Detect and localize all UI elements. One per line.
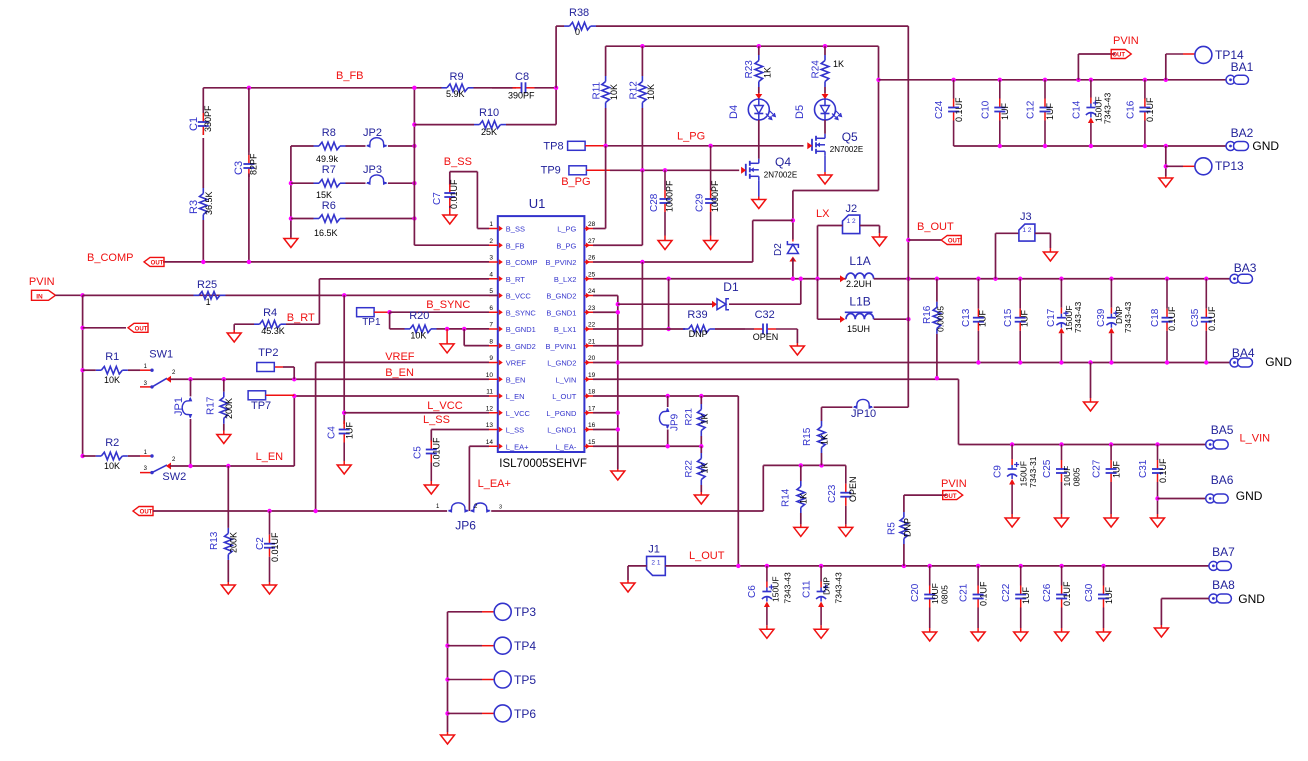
junction R2 row [80,454,84,458]
junction R21 top [699,394,703,398]
junction R7 left [289,181,293,185]
svg-text:10K: 10K [104,461,120,471]
svg-text:1 2: 1 2 [1022,227,1031,234]
wire D4-Q4 [758,120,760,159]
svg-text:1 2: 1 2 [847,218,856,225]
svg-text:45.3K: 45.3K [261,326,285,336]
resistor R23 [758,46,760,55]
svg-text:TP7: TP7 [251,400,271,412]
svg-text:C32: C32 [755,309,775,321]
svg-text:JP3: JP3 [363,164,382,176]
ground C6 [766,625,768,629]
junction L_VCC [342,411,346,415]
connector BA1 [1226,75,1235,84]
svg-text:B_EN: B_EN [385,367,414,379]
svg-text:TP13: TP13 [1215,159,1244,173]
op-amp U1 ISL70005SEHVF body [498,216,585,452]
svg-text:C22: C22 [1001,583,1012,602]
svg-text:C10: C10 [980,100,991,119]
svg-text:JP1: JP1 [173,397,185,416]
svg-text:TP2: TP2 [258,347,278,359]
jumper JP10 [854,399,872,406]
wire J2 pin2 [860,225,880,227]
svg-text:PVIN: PVIN [29,276,55,288]
junction C9 [1010,442,1014,446]
capacitor C28 [664,170,666,190]
svg-text:L_GND1: L_GND1 [547,426,576,435]
U1 pin 28 L_PG [584,228,593,230]
wire TP3-6 bus [447,612,449,732]
svg-text:TP1: TP1 [362,317,381,328]
svg-text:28: 28 [588,221,596,228]
wire B_SYNC row [390,311,489,313]
wire TP8 lead [585,145,605,147]
junction gnd rail [998,144,1002,148]
junction C13 bot [976,360,980,364]
wire pin15 L_EA- [593,445,701,447]
svg-text:26: 26 [588,255,596,262]
junction B_OUT [906,238,910,242]
svg-text:D4: D4 [728,105,740,119]
connector BA8 [1209,594,1218,603]
junction J2/LX [815,277,819,281]
U1 pin 13 L_SS [489,429,498,431]
ground C31 [1157,514,1159,518]
svg-text:R17: R17 [206,396,217,415]
led D4 [748,99,769,120]
wire pin8 route [463,329,465,346]
svg-text:49.9k: 49.9k [316,154,339,164]
svg-text:GND: GND [1252,139,1279,153]
svg-text:B_SYNC: B_SYNC [506,308,537,317]
svg-text:11: 11 [486,389,493,396]
svg-text:JP9: JP9 [670,413,681,431]
ground C30 [1103,628,1105,632]
led D5 [815,99,836,120]
capacitor C35 [1205,279,1207,309]
svg-text:27: 27 [588,238,596,245]
svg-text:OUT: OUT [948,239,961,245]
wire B_LX vert [668,279,670,329]
wire BA2 gnd rail [954,145,1226,147]
svg-text:R39: R39 [687,309,707,321]
wire pin2 B_FB [414,244,489,246]
power flag B_OUT OUT [941,236,961,245]
junction TP5 [445,677,449,681]
U1 pin 11 L_EN [489,395,498,397]
svg-text:0.0005: 0.0005 [936,306,946,332]
svg-text:24: 24 [588,288,596,295]
capacitor C11 [820,566,822,582]
junction R16 top [935,277,939,281]
capacitor C24 [953,80,955,99]
wire C3 bottom [248,174,250,262]
power flag PVIN OUT bottom [943,491,963,500]
resistor R10 [414,124,474,126]
junction B_VCC/L_VCC riser [342,293,346,297]
svg-text:C21: C21 [959,583,970,602]
svg-text:C35: C35 [1190,308,1201,327]
junction R3/B_COMP [201,260,205,264]
svg-text:TP9: TP9 [541,165,561,177]
connector J3 [1019,224,1035,241]
power flag PVIN OUT left [128,323,148,332]
svg-text:L_EA-: L_EA- [556,442,577,451]
wire L_SS row [431,429,489,431]
wire BA5 rail [959,444,1206,446]
svg-text:TP8: TP8 [543,141,563,153]
capacitor C27 [1110,445,1112,461]
junction C24 top [951,78,955,82]
junction C14 [1089,78,1093,82]
junction JP1 bottom [188,464,192,468]
U1 pin 7 B_GND1 [489,328,498,330]
svg-text:TP3: TP3 [514,605,536,619]
svg-text:DNP: DNP [903,518,913,537]
svg-text:10K: 10K [410,330,426,340]
svg-text:L_VCC: L_VCC [506,409,531,418]
svg-text:15: 15 [588,439,596,446]
junction L1B out [906,317,910,321]
U1 pin 1 B_SS [489,228,498,230]
ground TP13 [1165,176,1167,178]
svg-text:OUT: OUT [151,261,164,267]
junction C39 bot [1109,360,1113,364]
wire B_PVIN vert [641,262,643,346]
svg-text:1K: 1K [820,434,830,445]
svg-text:R5: R5 [887,522,898,535]
junction R16/L_VIN [935,376,939,380]
wire C32 gnd [796,329,798,343]
svg-text:B_RT: B_RT [506,275,525,284]
svg-text:L_OUT: L_OUT [689,550,725,562]
svg-text:82PF: 82PF [249,153,259,175]
svg-text:B_COMP: B_COMP [87,252,133,264]
junction R1 row [80,368,84,372]
svg-text:JP6: JP6 [455,519,476,533]
junction R15 bottom [819,463,823,467]
wire B_OUT bus [907,26,909,407]
inductor L1B [818,318,841,320]
testpoint TP14 [1195,46,1212,63]
resistor R13 [227,519,229,528]
svg-text:36.5K: 36.5K [204,191,214,215]
ground BA8 [1160,625,1162,628]
ground R14 [800,524,802,527]
svg-text:C18: C18 [1150,308,1161,327]
junction gnd stub [445,327,449,331]
junction C15 top [1018,277,1022,281]
capacitor C20 [929,566,931,586]
svg-text:150UF: 150UF [770,576,780,602]
svg-text:L_SS: L_SS [506,426,524,435]
svg-text:6: 6 [489,305,493,312]
junction B_LX1 [666,327,670,331]
svg-text:BA6: BA6 [1211,473,1234,487]
junction C31 [1155,442,1159,446]
capacitor C8 [492,87,513,89]
wire BA3 rail [908,278,1230,280]
ground C27 [1110,514,1112,518]
svg-text:R15: R15 [802,427,813,446]
ground C22 [1020,628,1022,632]
capacitor C23 [845,465,847,483]
wire pin17 L_PGND [593,412,618,414]
ground C29 [710,236,712,241]
wire R13 riser [227,466,229,519]
wire Q5 source [824,156,826,172]
svg-text:2N7002E: 2N7002E [764,171,797,180]
ground C23 [845,524,847,527]
svg-text:10K: 10K [609,84,619,100]
resistor R1 [83,369,96,371]
wire L_EA+ pin14 riser [469,445,489,447]
svg-text:10UF: 10UF [1062,466,1072,487]
svg-text:C15: C15 [1003,308,1014,327]
capacitor C1 [202,110,204,113]
junction B_FB rail/bus [412,86,416,90]
svg-text:L_VIN: L_VIN [556,375,577,384]
wire L_VCC row [344,412,489,414]
junction TP4 [445,644,449,648]
svg-text:DNP: DNP [689,329,708,339]
capacitor C39 [1110,279,1112,308]
svg-text:C39: C39 [1096,308,1107,327]
capacitor C22 [1020,566,1022,586]
svg-text:B_FB: B_FB [336,70,364,82]
junction BA4 gnd riser [1088,360,1092,364]
wire PVIN left column [82,295,84,456]
junction L_OUT riser/rail [736,564,740,568]
wire L_EA+ node row [763,464,846,466]
svg-text:TP6: TP6 [514,707,536,721]
wire B_RT riser [318,279,320,324]
wire BA7 rail [665,565,1209,567]
svg-text:OPEN: OPEN [848,476,858,502]
U1 pin 8 B_GND2 [489,345,498,347]
svg-text:J1: J1 [648,544,660,556]
svg-text:TP5: TP5 [514,673,536,687]
svg-text:L_PG: L_PG [557,225,576,234]
testpoint TP2 [257,363,275,372]
wire pin16 L_GND1 [593,429,618,431]
jumper JP1 [190,379,192,396]
svg-text:JP2: JP2 [363,127,382,139]
svg-text:7: 7 [489,322,493,329]
svg-text:R22: R22 [684,460,695,477]
junction C28 top [663,168,667,172]
junction TP2 riser [292,377,296,381]
junction JP9 bottom [666,444,670,448]
junction PVIN rail start [876,78,880,82]
wire pin18 L_OUT [593,395,738,397]
svg-text:R21: R21 [684,408,695,425]
svg-text:L_PGND: L_PGND [546,409,577,418]
jumper JP6 [449,503,468,511]
svg-text:L1B: L1B [849,295,870,309]
wire R8R7R6 left bus [290,146,292,238]
junction JP2/bus [412,144,416,148]
svg-text:B_SS: B_SS [506,225,525,234]
junction C22 [1019,564,1023,568]
ground R22 [700,492,702,495]
svg-text:1UF: 1UF [345,421,355,439]
ground C20 [929,628,931,632]
svg-text:0.1UF: 0.1UF [1207,306,1217,331]
transistor Q5 [811,139,813,151]
svg-text:C7: C7 [432,192,443,205]
junction PVIN col [80,293,84,297]
svg-text:B_SYNC: B_SYNC [426,299,470,311]
U1 pin 18 L_OUT [584,395,593,397]
svg-text:16.5K: 16.5K [314,228,338,238]
junction C11 [819,564,823,568]
U1 pin 6 B_SYNC [489,311,498,313]
wire TP4 lead [448,645,483,647]
wire TP3 lead [448,611,483,613]
svg-text:B_LX2: B_LX2 [554,275,577,284]
svg-text:7343-31: 7343-31 [1028,456,1038,487]
svg-text:16: 16 [588,422,596,429]
svg-text:R20: R20 [409,310,429,322]
svg-text:B_GND2: B_GND2 [506,342,536,351]
svg-text:R12: R12 [629,81,640,100]
capacitor C26 [1061,566,1063,586]
svg-text:R11: R11 [592,81,603,99]
ground C4 [343,461,345,465]
U1 pin 12 L_VCC [489,412,498,414]
U1 pin 2 B_FB [489,244,498,246]
svg-text:0.1UF: 0.1UF [1145,97,1155,122]
svg-text:C3: C3 [233,161,245,175]
testpoint TP3 [494,603,511,620]
junction TP13 riser top [1164,144,1168,148]
wire D1 riser [800,279,802,304]
testpoint TP13 [1195,158,1212,175]
wire R20 right to pin7 [447,328,489,330]
svg-text:BA5: BA5 [1211,423,1234,437]
svg-text:7343-43: 7343-43 [1103,93,1113,124]
junction gnd rail [1043,144,1047,148]
svg-text:1: 1 [206,297,211,307]
capacitor C3 [248,152,250,155]
svg-text:B_PG: B_PG [556,241,576,250]
capacitor C14 [1090,80,1092,98]
svg-text:C13: C13 [961,308,972,327]
svg-text:L_VIN: L_VIN [1240,432,1271,444]
wire PVIN rail [879,79,1227,81]
junction R23 top [757,44,761,48]
wire B_OUT flag lead [908,239,941,241]
junction C2 riser [267,509,271,513]
svg-text:25K: 25K [481,127,497,137]
svg-text:2.2UH: 2.2UH [846,279,872,289]
svg-text:0805: 0805 [1072,467,1082,486]
wire GND bus [617,296,619,470]
U1 pin 21 B_PVIN1 [584,345,593,347]
capacitor C29 [710,146,712,190]
svg-text:L_SS: L_SS [423,414,450,426]
svg-text:0805: 0805 [940,585,950,604]
ground left bus [290,238,292,239]
wire D5-Q5 [824,120,826,134]
ground BA4 rail [1090,398,1092,402]
wire J3 pin2 [1035,232,1051,234]
wire L_OUT riser [737,396,739,565]
svg-text:ISL70005SEHVF: ISL70005SEHVF [499,458,587,470]
junction C6 [765,564,769,568]
svg-text:10UF: 10UF [930,583,940,604]
wire pin25 B_LX2 to L1A [593,278,846,280]
svg-text:0.1UF: 0.1UF [1158,458,1168,483]
svg-text:1UF: 1UF [1112,460,1122,478]
svg-text:10K: 10K [104,375,120,385]
wire JP10 right [874,406,909,408]
svg-text:C12: C12 [1026,100,1037,119]
svg-text:R8: R8 [322,127,336,139]
svg-text:0: 0 [575,27,580,37]
resistor R22 [700,446,702,453]
junction TP14 riser [1164,78,1168,82]
junction C13 top [976,277,980,281]
wire JP10 left [822,406,853,408]
svg-text:OUT: OUT [944,494,957,500]
svg-text:10K: 10K [646,84,656,100]
jumper JP9 [667,396,669,407]
junction C12 [1043,78,1047,82]
svg-text:R23: R23 [744,60,755,79]
svg-text:R4: R4 [263,307,277,319]
ground Q5 [824,172,826,175]
svg-text:9: 9 [489,355,493,362]
wire to D2 top [792,191,794,240]
svg-text:C26: C26 [1042,583,1053,602]
capacitor C12 [1044,80,1046,99]
svg-text:200K: 200K [224,398,234,419]
capacitor C15 [1019,279,1021,309]
junction TP9/R12 [640,168,644,172]
ground R13 [227,582,229,585]
junction C16 [1143,78,1147,82]
wire B_RT row [319,278,489,280]
resistor R4 [234,323,254,325]
svg-text:L_PG: L_PG [677,131,705,143]
wire TP5 lead [448,679,483,681]
junction C27 [1109,442,1113,446]
svg-text:0.1UF: 0.1UF [1062,581,1072,606]
testpoint TP8 [568,141,586,150]
svg-text:330PF: 330PF [203,105,213,132]
svg-text:Q4: Q4 [775,155,791,169]
wire pin20 L_GND2 rail to BA4 [593,362,1230,364]
svg-text:C20: C20 [910,583,921,602]
svg-text:8: 8 [489,338,493,345]
svg-text:C11: C11 [802,580,813,598]
svg-text:5: 5 [489,288,493,295]
wire L_EA+ riser [762,465,764,511]
ground Q4 [758,197,760,200]
wire VREF riser [315,362,317,511]
resistor R16 [936,279,938,302]
capacitor C2 [269,511,271,535]
svg-text:LX: LX [816,208,830,220]
wire TP14 riser [1165,54,1167,80]
svg-text:7343-43: 7343-43 [1073,302,1083,333]
svg-text:SW2: SW2 [162,471,186,483]
svg-text:TP4: TP4 [514,639,536,653]
resistor R25 [83,294,194,296]
U1 pin 10 B_EN [489,378,498,380]
